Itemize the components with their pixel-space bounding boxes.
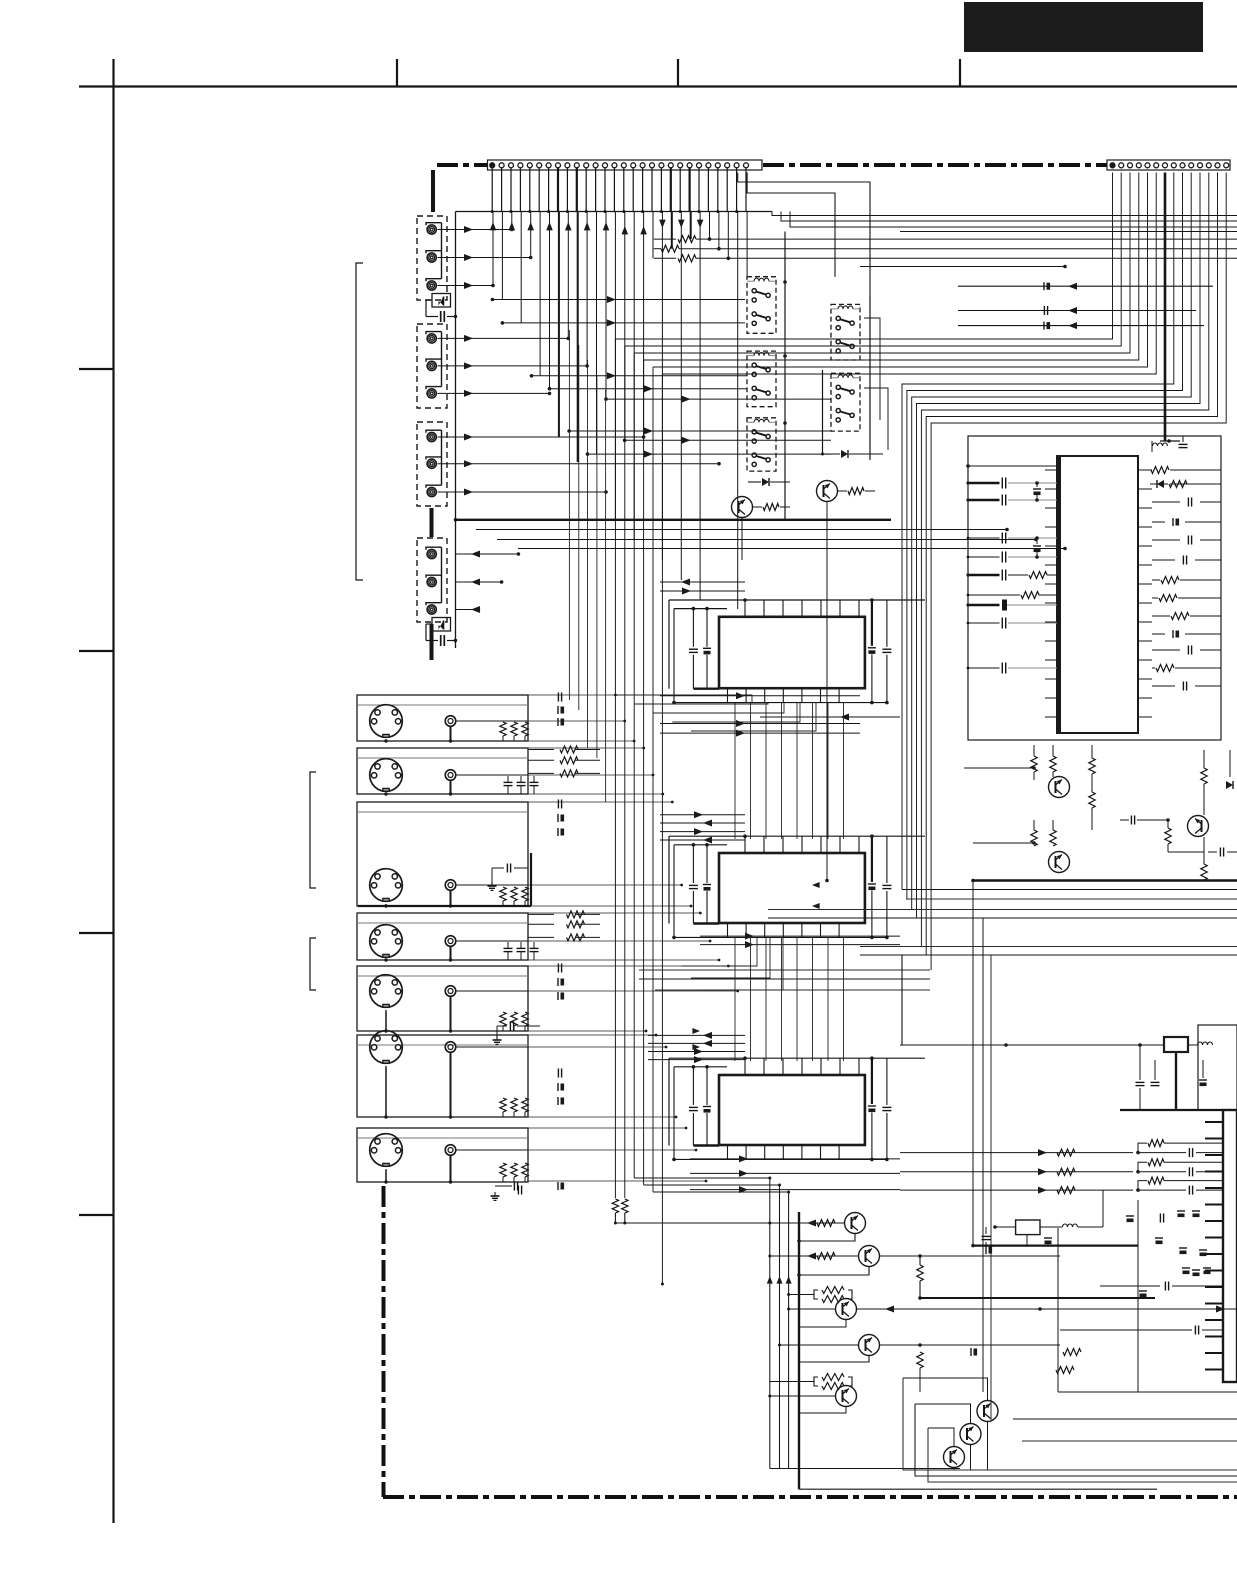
jack group J4 dashed box bbox=[417, 538, 447, 622]
IC U1 switching matrix bbox=[669, 598, 925, 704]
border tick left 3 bbox=[79, 932, 114, 934]
wire bus vertical drops bbox=[493, 212, 747, 610]
border tick top 3 bbox=[959, 59, 961, 87]
DIN connector row J9 box bbox=[357, 966, 528, 1033]
switch S5 dashed box bbox=[831, 373, 860, 431]
wire bold joint y1110 bbox=[1120, 1109, 1223, 1111]
wire rail bundle 3 bbox=[860, 947, 1237, 956]
wire triple verticals with up arrows bbox=[767, 1178, 792, 1469]
transistor Q6 bbox=[615, 1213, 865, 1243]
wire bottom rail y1468 bbox=[770, 1468, 960, 1470]
wire arrows above U3 bbox=[648, 1032, 745, 1063]
switch S4 dashed box bbox=[831, 304, 860, 360]
wire bottom staircases bbox=[903, 1378, 1237, 1482]
wire jack group J4 rows bbox=[456, 551, 521, 614]
capacitor clusters beside DIN rows bbox=[518, 693, 600, 1195]
wire crossbar runs to switches bbox=[491, 296, 831, 458]
jack group J3 dashed box bbox=[417, 422, 447, 506]
transistor Q12 bbox=[915, 1404, 981, 1470]
transistor Q13 bbox=[928, 1428, 965, 1470]
board boundary dash-dot top middle run bbox=[763, 163, 1107, 167]
wire U1-U2 interconnect verticals bbox=[735, 703, 844, 839]
DIN connector row J10 box bbox=[357, 1031, 528, 1119]
wire CN2 pin drops staircase bbox=[615, 173, 1226, 1286]
capacitor C-in4 sub-box bbox=[426, 618, 457, 647]
wire upper-right horizontal bus 4 bbox=[900, 231, 1237, 233]
IC U2 switching matrix bbox=[669, 834, 925, 939]
wire arrows below U2 bbox=[700, 933, 900, 949]
transistor Q1 bbox=[732, 497, 791, 518]
DIN connector row J8 box bbox=[357, 913, 539, 962]
DIN connector row J7 box bbox=[357, 802, 528, 908]
border tick left 1 bbox=[79, 368, 114, 370]
wire x1138 drop bbox=[1137, 1200, 1139, 1392]
board boundary dash-dot top left run bbox=[437, 163, 488, 167]
ground G7 row detail bbox=[491, 1182, 518, 1201]
wire corridor to U1 connections bbox=[615, 695, 816, 731]
capacitor bank left of U4 bbox=[966, 464, 1057, 673]
capacitor C-in1 sub-box bbox=[426, 294, 457, 323]
switch S2 dashed box bbox=[747, 351, 776, 407]
transistor Q8 bbox=[787, 1287, 1237, 1328]
wire bold vertical bus x799 bbox=[798, 1212, 800, 1489]
wire vertical x973 bbox=[972, 881, 974, 1247]
wire CN1 hook right 1 bbox=[747, 173, 835, 277]
electrolytic cluster bottom right bbox=[1060, 1211, 1223, 1335]
wire Q1 Q2 collector drops bbox=[742, 502, 829, 883]
transistor Q11 bbox=[903, 1378, 998, 1470]
board boundary bottom-left vertical dash-dot bbox=[382, 1186, 386, 1497]
wire rail bundle 2 bbox=[768, 910, 1237, 919]
wire arrows below U3 bbox=[690, 1155, 900, 1193]
wire arrows below U1 bbox=[660, 692, 900, 736]
crystal X1 bbox=[1140, 1037, 1213, 1110]
resistor network R-top trio bbox=[654, 236, 1237, 262]
title block (redacted) bbox=[964, 2, 1203, 52]
transistor Q3 with bias resistors bbox=[964, 745, 1070, 798]
wire rail y529 bbox=[476, 528, 1009, 532]
wire DIN output arrows bbox=[692, 882, 819, 1050]
resistor pair R-Q6 bbox=[612, 1199, 628, 1225]
connector CN1 header strip bbox=[488, 160, 763, 170]
wire y266 run bbox=[860, 265, 1067, 269]
wire CN2 bold drop joint bbox=[1160, 439, 1180, 443]
wire bold rail y880 bbox=[971, 879, 1237, 883]
wire rail bundle 1 bbox=[902, 890, 1237, 900]
capacitor cluster near X1 bbox=[1151, 1060, 1208, 1086]
DIN connector row J11 box bbox=[357, 1128, 528, 1184]
wire upper-right horizontal bus 2 bbox=[781, 212, 1237, 222]
transistor Q4 with bias resistors bbox=[973, 820, 1070, 873]
wire y1392 bottom long bbox=[1058, 1228, 1237, 1392]
wire rows with left arrows to CN2 region bbox=[958, 282, 1213, 329]
group bracket 3 bbox=[310, 938, 316, 990]
border tick left 4 bbox=[79, 1214, 114, 1216]
wire vertical x983 bbox=[982, 918, 984, 1392]
border tick top 1 bbox=[396, 59, 398, 87]
transistor Q2 bbox=[817, 481, 876, 502]
IC U5 (clipped at page edge) bbox=[1205, 1110, 1237, 1382]
wire arrows above U1 bbox=[660, 579, 745, 595]
filter above U4 bbox=[1152, 436, 1188, 452]
wire arrows above U2 bbox=[660, 811, 745, 843]
board boundary left segment b bbox=[430, 508, 434, 537]
wire bus arrows bbox=[490, 220, 704, 235]
page border vertical rule bbox=[112, 59, 114, 1523]
wire bold rail y520 bbox=[454, 518, 891, 522]
wire x1103 riser bbox=[1102, 1190, 1104, 1227]
jack group J2 dashed box bbox=[417, 324, 447, 408]
wire corridor to U2 bottom connections bbox=[682, 937, 783, 990]
group bracket 1 bbox=[356, 263, 363, 580]
wire vertical x870 bbox=[869, 295, 871, 460]
wire bottom rail y1489 bbox=[799, 1488, 1157, 1490]
transistor Q5 with network bbox=[1120, 750, 1237, 880]
IC U3 switching matrix bbox=[669, 1056, 925, 1161]
board boundary left segment a bbox=[431, 170, 435, 212]
wire vertical x785 bbox=[783, 232, 787, 520]
wire y1045 run bbox=[900, 1043, 1145, 1110]
transistor Q7 bbox=[768, 1246, 1060, 1300]
wire upper-right horizontal bus 3 bbox=[790, 212, 1237, 228]
wire rail y539 bbox=[497, 538, 1038, 542]
resistor-cap rows into U5 bbox=[900, 1140, 1223, 1195]
transistor Q10 bbox=[768, 1374, 856, 1414]
wire box bottom right bbox=[1198, 1025, 1237, 1110]
resistor R-q3 pair bbox=[1089, 745, 1095, 830]
wire x902 drop to crystal bbox=[901, 955, 903, 1045]
border tick left 2 bbox=[79, 650, 114, 652]
group bracket 2 bbox=[310, 772, 316, 888]
wire vertical x991 bbox=[990, 955, 992, 1420]
wire jack group J3 rows bbox=[438, 434, 721, 496]
wire rail bundle 4 bbox=[639, 970, 930, 990]
wire U2-U3 interconnect verticals bbox=[735, 937, 844, 1061]
wire jack group J1 rows bbox=[438, 226, 533, 289]
wire jack group J2 rows bbox=[438, 335, 589, 397]
ground G3 row detail bbox=[488, 864, 529, 891]
wire upper-right horizontal bus 1 bbox=[772, 212, 1237, 216]
wire row3 bold bottom bbox=[358, 853, 531, 906]
wire DIN row outputs bbox=[528, 694, 739, 1183]
jack group J1 dashed box bbox=[417, 216, 447, 300]
wire main horizontal bus bbox=[456, 211, 773, 213]
wire switch box output hooks bbox=[864, 318, 888, 450]
ground G5 row detail bbox=[493, 1022, 541, 1045]
diode D1 bbox=[748, 478, 790, 486]
wire main left vertical bus bbox=[455, 212, 457, 649]
oscillator module bbox=[982, 1220, 1104, 1246]
wire rail y548 bbox=[518, 547, 1067, 551]
DIN connector row J6 box bbox=[357, 748, 539, 796]
board boundary bottom dash-dot run bbox=[383, 1495, 1237, 1499]
border tick top 2 bbox=[677, 59, 679, 87]
wire CN1 hook right 2 bbox=[738, 173, 870, 296]
component bank right of U4 bbox=[1150, 467, 1221, 691]
DIN connector row J5 box bbox=[357, 695, 528, 743]
wire box around U4 bbox=[968, 436, 1221, 740]
connector CN2 header strip bbox=[1107, 160, 1230, 170]
switch S1 dashed box bbox=[747, 277, 776, 334]
wire CN1 pin drops bbox=[491, 168, 746, 213]
IC U4 DSP bbox=[1045, 456, 1152, 733]
board boundary left segment c bbox=[430, 624, 434, 660]
wire vertical x822 bbox=[822, 370, 824, 454]
diode D2 bbox=[821, 450, 883, 458]
page border horizontal rule bbox=[79, 85, 1237, 87]
wire vertical corridor bundle bbox=[569, 330, 605, 802]
switch S3 dashed box bbox=[747, 418, 776, 471]
transistor Q9 bbox=[778, 1298, 1155, 1392]
wire bold rail y1245 bbox=[971, 1244, 1138, 1248]
